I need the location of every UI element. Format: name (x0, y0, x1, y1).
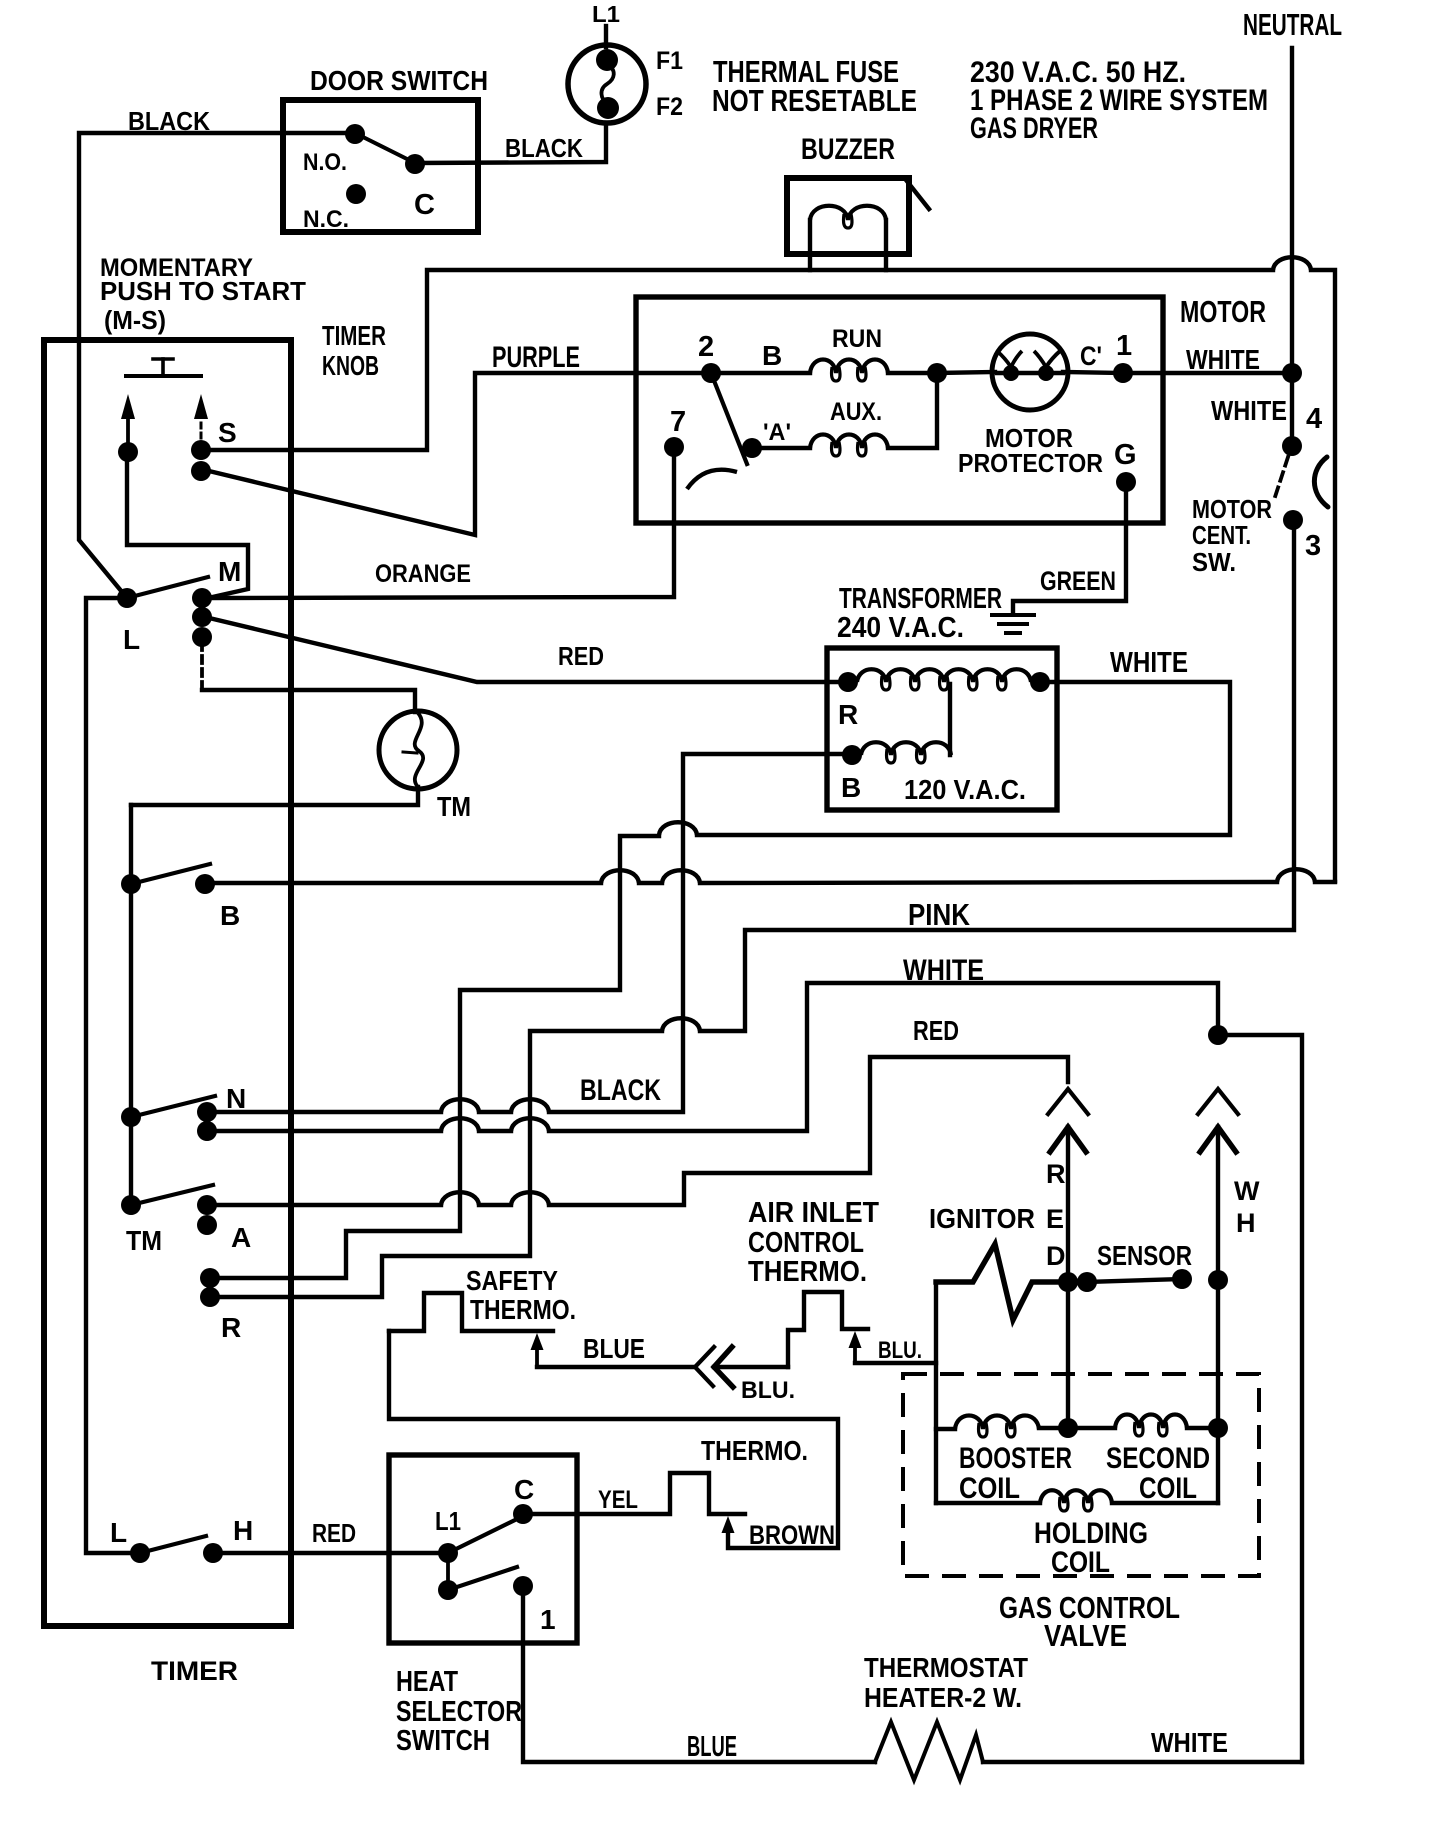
svg-text:SW.: SW. (1192, 547, 1236, 577)
wire to protector (937, 372, 995, 373)
svg-text:BROWN: BROWN (749, 1520, 835, 1550)
svg-text:SELECTOR: SELECTOR (396, 1696, 522, 1728)
svg-text:WHITE: WHITE (1211, 395, 1287, 426)
svg-text:240 V.A.C.: 240 V.A.C. (837, 612, 964, 644)
svg-text:BLACK: BLACK (580, 1074, 661, 1107)
svg-text:E: E (1046, 1204, 1064, 1234)
wire WH junction to right riser (1218, 1035, 1302, 1762)
wire white: R to transformer secondary (218, 836, 659, 1278)
timer contact L bottom (130, 1543, 150, 1563)
air inlet thermostat symbol (788, 1292, 868, 1367)
timer box (44, 340, 291, 1626)
timer pivot B (121, 874, 141, 894)
svg-text:N.C.: N.C. (303, 206, 349, 233)
svg-text:C: C (514, 1474, 534, 1505)
wire white motor 1 to neutral (1123, 371, 1292, 375)
svg-text:SAFETY: SAFETY (466, 1265, 558, 1296)
wire white: N to sensor circuit (215, 1129, 441, 1133)
svg-text:3: 3 (1305, 530, 1321, 562)
fuse F1-F2 thermal fuse circle (568, 45, 646, 123)
svg-text:TIMER: TIMER (322, 320, 386, 351)
transformer terminal B (842, 745, 862, 765)
wire green to ground (1013, 482, 1126, 613)
motor terminal 7 (664, 437, 684, 457)
motor AUX winding (752, 446, 810, 450)
heat selector contact C (513, 1504, 533, 1524)
svg-text:YEL: YEL (598, 1486, 638, 1514)
door switch contact N.C. (346, 184, 366, 204)
ground symbol (992, 613, 1034, 617)
svg-text:SWITCH: SWITCH (396, 1725, 490, 1757)
svg-text:BUZZER: BUZZER (801, 133, 895, 166)
timer contact N (197, 1102, 217, 1122)
motor box (636, 297, 1163, 523)
wire door switch C to fuse (415, 124, 606, 163)
push button symbol (153, 357, 173, 361)
timer contact S (191, 440, 211, 460)
timer contact R (200, 1268, 220, 1288)
motor contact A' (742, 438, 762, 458)
timer pivot N (121, 1107, 141, 1127)
svg-text:VALVE: VALVE (1044, 1618, 1127, 1653)
svg-text:PINK: PINK (908, 897, 971, 932)
junction neutral white (1282, 363, 1302, 383)
svg-text:HEAT: HEAT (396, 1666, 458, 1698)
svg-text:F2: F2 (656, 93, 683, 121)
wire blue to gas valve coils (855, 1282, 936, 1363)
timer blade B (131, 864, 210, 884)
svg-text:RED: RED (913, 1015, 959, 1046)
svg-text:BLUE: BLUE (687, 1731, 737, 1763)
wire red H to L1 (221, 1551, 448, 1555)
svg-text:PUSH TO START: PUSH TO START (100, 276, 306, 306)
svg-text:GREEN: GREEN (1040, 566, 1116, 596)
svg-text:RUN: RUN (832, 325, 882, 353)
svg-text:MOTOR: MOTOR (1180, 294, 1266, 329)
svg-text:AIR INLET: AIR INLET (748, 1197, 879, 1229)
svg-text:R: R (1046, 1159, 1066, 1189)
transformer box (827, 648, 1057, 810)
wire blue safety to connector (537, 1365, 695, 1369)
svg-text:B: B (762, 340, 782, 371)
motor cent sw arc (1314, 457, 1328, 507)
sensor body (1087, 1279, 1182, 1282)
svg-text:H: H (1236, 1208, 1256, 1238)
svg-text:TRANSFORMER: TRANSFORMER (839, 583, 1002, 615)
push button right contact arrow (200, 420, 203, 448)
buzzer striker (906, 180, 929, 209)
svg-text:SECOND: SECOND (1106, 1442, 1210, 1475)
wire safety thermo return (389, 1331, 838, 1548)
svg-text:NOT RESETABLE: NOT RESETABLE (712, 83, 917, 118)
svg-text:R: R (838, 699, 858, 730)
svg-text:RED: RED (558, 641, 604, 671)
svg-text:F1: F1 (656, 47, 683, 75)
timer blade N (131, 1096, 215, 1117)
wire blue to air inlet thermo (714, 1365, 788, 1369)
svg-text:HEATER-2 W.: HEATER-2 W. (864, 1682, 1022, 1713)
svg-text:WHITE: WHITE (1151, 1727, 1228, 1758)
timer pivot L (117, 588, 137, 608)
wire white bottom (983, 1760, 1302, 1764)
junction white/WH (1208, 1025, 1228, 1045)
ignitor terminal dots (1058, 1272, 1078, 1292)
svg-text:L1: L1 (592, 1, 620, 27)
svg-text:PURPLE: PURPLE (492, 341, 580, 374)
motor cent sw terminal 3 (1283, 510, 1303, 530)
svg-text:BOOSTER: BOOSTER (959, 1442, 1072, 1475)
thermostat heater resistor (875, 1722, 983, 1780)
wire timer inner rail (129, 805, 133, 1205)
timer blade L-H (140, 1536, 206, 1553)
ignitor element (936, 1244, 1060, 1320)
safety thermostat contact arrow (531, 1333, 544, 1350)
push button left contact arrow (126, 419, 130, 448)
svg-text:N.O.: N.O. (303, 149, 347, 176)
svg-text:H: H (233, 1515, 253, 1546)
svg-text:7: 7 (670, 406, 686, 438)
svg-text:TM: TM (126, 1225, 162, 1256)
junction second/right (1208, 1418, 1228, 1438)
svg-text:L: L (110, 1517, 127, 1548)
svg-text:S: S (218, 417, 237, 448)
junction booster/second (1039, 1426, 1068, 1430)
svg-text:L: L (123, 624, 140, 655)
buzzer box (787, 178, 909, 254)
wire purple: S to motor 2 (209, 373, 704, 535)
door switch contact N.O. (345, 124, 365, 144)
connector chevron red (1048, 1089, 1088, 1114)
timer blade A (131, 1185, 213, 1205)
heat selector box (389, 1455, 577, 1643)
motor terminal 1 (1063, 372, 1123, 373)
second coil (1068, 1426, 1115, 1430)
svg-text:SENSOR: SENSOR (1097, 1240, 1192, 1271)
svg-text:ORANGE: ORANGE (375, 560, 471, 588)
heat selector terminal L1 (438, 1543, 458, 1563)
svg-text:PROTECTOR: PROTECTOR (958, 448, 1103, 478)
door switch box (283, 100, 478, 232)
sensor terminal dots (1172, 1269, 1192, 1289)
connector chevron white (1198, 1089, 1238, 1114)
svg-text:DOOR SWITCH: DOOR SWITCH (310, 65, 488, 96)
push button left contact (118, 442, 138, 462)
wire pink: R to motor cent sw 3 (218, 1031, 662, 1297)
timer pivot A (121, 1195, 141, 1215)
transformer primary winding (857, 669, 1031, 682)
door switch blade (355, 133, 415, 163)
svg-text:BLU.: BLU. (878, 1337, 922, 1364)
svg-text:B: B (841, 772, 861, 803)
transformer right terminal (1030, 672, 1050, 692)
wire timer left rail (86, 598, 140, 1553)
timer contact B (195, 874, 215, 894)
svg-text:(M-S): (M-S) (104, 305, 166, 335)
motor switch blade 2-A (711, 373, 747, 464)
heat selector lower pole (438, 1580, 458, 1600)
buzzer coil (810, 206, 886, 220)
thermo contact arrow brown (722, 1516, 735, 1533)
holding coil bottom path (936, 1501, 1040, 1505)
svg-text:C': C' (1080, 341, 1102, 371)
svg-text:D: D (1046, 1241, 1066, 1271)
motor cent switch arc (687, 470, 737, 489)
heat selector contact 1 (513, 1576, 533, 1596)
wire B contact to right side (213, 881, 601, 885)
transformer terminal R (838, 672, 858, 692)
svg-text:WHITE: WHITE (1186, 344, 1260, 375)
svg-text:COIL: COIL (1139, 1472, 1197, 1505)
booster coil circuit left leg (934, 1363, 938, 1503)
wire black from door switch to timer L (79, 133, 355, 598)
svg-text:NEUTRAL: NEUTRAL (1243, 7, 1342, 42)
connector arrow white (1200, 1127, 1236, 1152)
wire red: M to transformer R (205, 617, 848, 682)
svg-text:TM: TM (437, 791, 471, 822)
wire sensor to booster (1216, 1280, 1220, 1428)
gas control valve dashed box (903, 1374, 1259, 1576)
wire heat selector 1 to heater (523, 1586, 875, 1762)
svg-text:'A': 'A' (763, 419, 791, 446)
svg-text:THERMO.: THERMO. (748, 1256, 867, 1288)
svg-text:G: G (1114, 439, 1137, 471)
wire run winding (719, 371, 810, 375)
svg-text:BLUE: BLUE (583, 1333, 645, 1364)
svg-text:COIL: COIL (1051, 1546, 1110, 1579)
booster coil (936, 1427, 955, 1431)
motor cent sw dashed blade (1275, 457, 1288, 497)
wire push button to M (127, 452, 248, 598)
svg-text:RED: RED (312, 1518, 356, 1548)
wire L1 lead (604, 26, 608, 47)
svg-text:W: W (1234, 1176, 1260, 1206)
motor cent sw terminal 4 (1282, 436, 1302, 456)
wire ignitor to coils (1066, 1282, 1070, 1428)
svg-text:TIMER: TIMER (151, 1656, 238, 1686)
transformer center tap (948, 684, 952, 755)
svg-text:2: 2 (698, 331, 714, 363)
wire orange: M to motor 7 (210, 447, 674, 598)
svg-text:BLU.: BLU. (741, 1377, 795, 1404)
svg-text:1: 1 (1116, 330, 1132, 362)
svg-text:B: B (220, 900, 240, 931)
motor terminal 2 (701, 363, 721, 383)
motor RUN winding (810, 360, 888, 374)
wire neutral vertical (1290, 48, 1294, 437)
timer blade L-M (127, 577, 208, 598)
svg-text:4: 4 (1306, 403, 1322, 435)
timer contact M dots (192, 588, 212, 608)
svg-text:120 V.A.C.: 120 V.A.C. (904, 774, 1026, 805)
wire M to timer motor TM (200, 643, 204, 688)
heat selector blade 2 (448, 1567, 517, 1590)
svg-text:WHITE: WHITE (1110, 647, 1188, 679)
connector chevron blue (695, 1347, 714, 1386)
svg-text:N: N (226, 1083, 246, 1114)
svg-text:CENT.: CENT. (1192, 520, 1251, 550)
svg-text:THERMO.: THERMO. (470, 1294, 576, 1325)
svg-text:WHITE: WHITE (903, 954, 984, 987)
svg-text:KNOB: KNOB (322, 350, 379, 381)
svg-text:R: R (221, 1312, 241, 1343)
motor terminal G (1116, 472, 1136, 492)
heat selector blade L1-C (448, 1518, 519, 1553)
timer contact A (197, 1195, 217, 1215)
safety thermostat symbol (389, 1293, 553, 1331)
svg-text:COIL: COIL (959, 1472, 1020, 1505)
svg-text:THERMO.: THERMO. (701, 1435, 808, 1466)
wire S to buzzer line (209, 270, 1273, 450)
wire wh riser (1216, 1127, 1220, 1280)
junction run/aux (888, 371, 937, 375)
svg-text:M: M (218, 556, 241, 587)
svg-text:1: 1 (540, 1604, 556, 1635)
thermostat symbol in thermo box (530, 1473, 745, 1514)
svg-text:L1: L1 (435, 1506, 461, 1536)
door switch contact C (405, 154, 425, 174)
air inlet contact arrow (849, 1331, 862, 1348)
connector arrow red (1050, 1127, 1086, 1152)
wire black: N to transformer B (215, 1110, 441, 1114)
svg-text:A: A (231, 1222, 251, 1253)
svg-text:IGNITOR: IGNITOR (929, 1203, 1035, 1234)
svg-text:AUX.: AUX. (830, 398, 882, 426)
motor protector (992, 334, 1068, 410)
svg-text:GAS DRYER: GAS DRYER (970, 112, 1098, 145)
transformer secondary winding (861, 742, 951, 755)
wire red riser to ignitor (1066, 1127, 1070, 1282)
svg-text:THERMOSTAT: THERMOSTAT (864, 1652, 1028, 1683)
svg-text:CONTROL: CONTROL (748, 1227, 864, 1259)
svg-text:C: C (414, 189, 435, 221)
timer contact H (203, 1543, 223, 1563)
heat selector pole link (446, 1553, 450, 1590)
wire TM to timer rail (131, 787, 418, 805)
wire red: A to ignitor (215, 1203, 441, 1207)
svg-text:BLACK: BLACK (505, 133, 583, 163)
timer motor TM (379, 711, 457, 789)
connector arrow blue (714, 1347, 733, 1387)
